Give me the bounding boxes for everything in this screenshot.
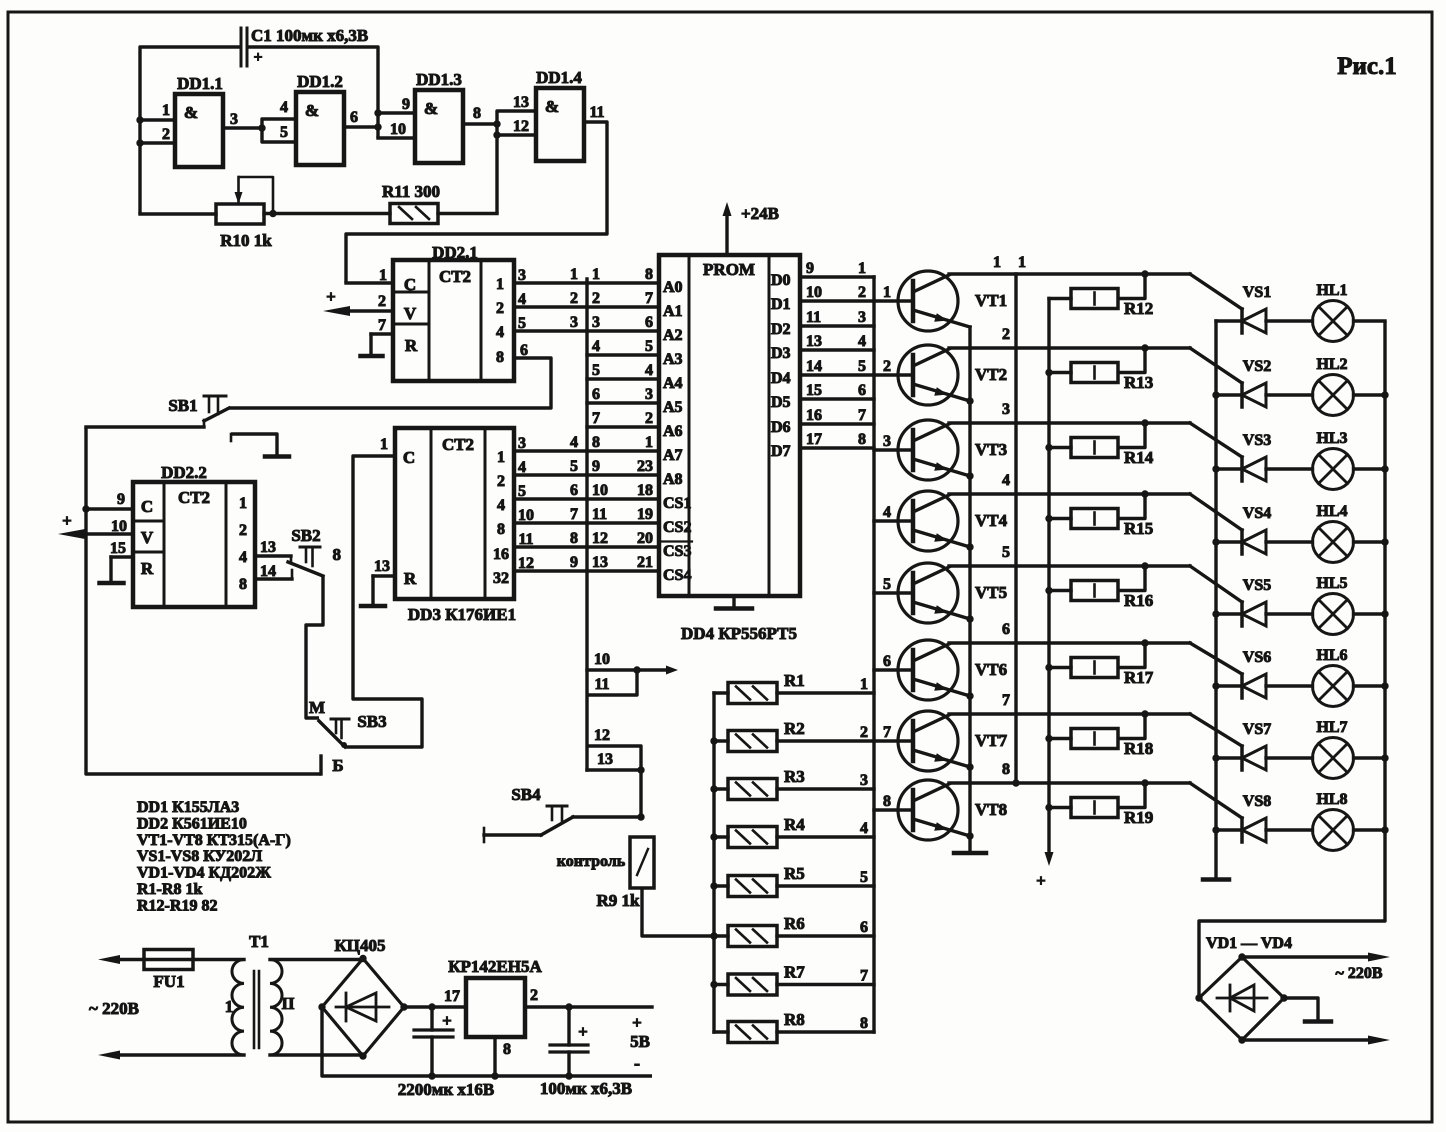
- svg-text:VT7: VT7: [975, 731, 1008, 750]
- svg-text:R8: R8: [784, 1010, 805, 1029]
- svg-text:&: &: [424, 99, 438, 118]
- resistor R12: [1049, 274, 1153, 318]
- svg-text:C: C: [404, 275, 416, 294]
- pin 1 C input of DD2.1: [346, 267, 393, 284]
- voltage regulator КР142ЕН5А: [444, 957, 542, 1076]
- wire bus to transistor bases: [874, 284, 913, 810]
- svg-text:11: 11: [589, 104, 604, 121]
- node junction R9 R6: [710, 932, 717, 939]
- pin 1 of DD1.1: [140, 102, 175, 120]
- svg-text:1: 1: [380, 436, 388, 453]
- wire R11 to DD1.4 input node: [438, 212, 497, 215]
- pin 7 R input of DD2.1: [371, 317, 393, 356]
- svg-text:12: 12: [513, 118, 529, 135]
- node junction rail 4 and R15: [1141, 490, 1148, 497]
- svg-text:DD4 КР556РТ5: DD4 КР556РТ5: [681, 624, 797, 643]
- svg-text:DD3 К176ИЕ1: DD3 К176ИЕ1: [408, 605, 516, 624]
- svg-text:R7: R7: [784, 963, 805, 982]
- push button SB1: [86, 396, 229, 427]
- svg-text:3: 3: [592, 314, 600, 331]
- svg-text:8: 8: [858, 431, 866, 448]
- svg-text:2: 2: [858, 284, 866, 301]
- svg-text:7: 7: [570, 506, 578, 523]
- capacitor 2200мк: [414, 1007, 453, 1076]
- svg-text:R5: R5: [784, 864, 805, 883]
- node junctions lamp rail: [1381, 391, 1388, 833]
- svg-text:2: 2: [497, 473, 505, 490]
- svg-text:A8: A8: [663, 471, 683, 488]
- svg-text:VS4: VS4: [1243, 505, 1271, 522]
- pin 2 of DD1.1: [140, 126, 175, 143]
- svg-text:32: 32: [493, 570, 509, 587]
- svg-text:VD1-VD4 КД202Ж: VD1-VD4 КД202Ж: [137, 865, 271, 882]
- svg-text:R1-R8 1k: R1-R8 1k: [137, 881, 202, 898]
- svg-text:DD2 К561ИЕ10: DD2 К561ИЕ10: [137, 815, 247, 832]
- svg-text:D4: D4: [771, 370, 791, 387]
- wire thyristor cathode rail: [1214, 321, 1217, 879]
- transistor VT8: [898, 780, 1007, 840]
- svg-text:~ 220В: ~ 220В: [89, 999, 139, 1018]
- svg-text:VT1-VT8 КТ315(А-Г): VT1-VT8 КТ315(А-Г): [137, 832, 291, 849]
- wire lamp supply rail: [1199, 321, 1385, 998]
- wire emitter rail to ground: [968, 327, 971, 852]
- wire VD bottom output with arrow: [1242, 1036, 1390, 1045]
- svg-text:18: 18: [637, 482, 653, 499]
- svg-text:&: &: [184, 103, 198, 122]
- svg-text:4: 4: [518, 291, 526, 308]
- terminal 5V labels: [630, 1013, 650, 1073]
- wire bridge minus to common rail: [322, 1007, 652, 1076]
- svg-text:6: 6: [592, 386, 600, 403]
- pin 9 C input of DD2.2: [86, 491, 133, 509]
- svg-text:R15: R15: [1124, 519, 1153, 538]
- thyristor VS4: [1216, 505, 1271, 554]
- svg-text:17: 17: [806, 431, 822, 448]
- resistor R15: [1049, 494, 1153, 538]
- wire SB4 to node: [573, 815, 641, 818]
- node junctions DD1.4 input: [493, 120, 500, 127]
- svg-text:CS4: CS4: [663, 567, 691, 584]
- node junction rail 6 and R17: [1141, 639, 1148, 646]
- svg-text:9: 9: [570, 554, 578, 571]
- svg-text:SB1: SB1: [168, 396, 197, 415]
- push button SB2: [288, 526, 323, 576]
- svg-text:1: 1: [993, 254, 1001, 271]
- thyristor VS6: [1216, 649, 1271, 698]
- transistor VT4: [898, 491, 1008, 551]
- svg-text:R14: R14: [1124, 448, 1154, 467]
- svg-text:HL5: HL5: [1316, 575, 1347, 592]
- svg-text:19: 19: [637, 506, 653, 523]
- svg-text:4: 4: [496, 324, 504, 341]
- svg-text:HL1: HL1: [1316, 282, 1347, 299]
- svg-text:D0: D0: [771, 272, 791, 289]
- svg-text:D2: D2: [771, 321, 791, 338]
- svg-text:5: 5: [518, 315, 526, 332]
- svg-text:T1: T1: [249, 932, 269, 951]
- resistor R16: [1049, 566, 1153, 610]
- svg-text:3: 3: [858, 309, 866, 326]
- pin 2 V input of DD2.1 with plus arrow: [323, 287, 393, 316]
- push button SB4: [484, 785, 573, 842]
- bus vertical line address side: [585, 279, 588, 770]
- bridge rectifier КЦ405: [318, 936, 407, 1060]
- wire bus row 12: [587, 727, 641, 817]
- transistor VT2: [898, 345, 1007, 405]
- svg-text:A6: A6: [663, 423, 683, 440]
- pin 11 output of DD1.4: [346, 104, 607, 283]
- svg-text:С1 100мк х6,3В: С1 100мк х6,3В: [251, 26, 368, 45]
- svg-text:13: 13: [806, 333, 822, 350]
- svg-text:7: 7: [378, 317, 386, 334]
- wire resistor supply rail: [1036, 299, 1053, 891]
- svg-text:5: 5: [860, 869, 868, 886]
- svg-text:1: 1: [497, 449, 505, 466]
- svg-text:7: 7: [883, 724, 891, 741]
- wire input loop pins 4 5 of DD1.2: [262, 99, 296, 142]
- resistor R7: [714, 963, 874, 996]
- wire left rail of oscillator: [140, 47, 241, 214]
- svg-text:5В: 5В: [630, 1032, 650, 1051]
- svg-text:4: 4: [239, 549, 247, 566]
- svg-text:DD2.1: DD2.1: [432, 243, 478, 262]
- svg-text:+: +: [632, 1013, 642, 1032]
- ground at PROM: [716, 606, 752, 611]
- svg-text:13: 13: [374, 558, 390, 575]
- wire collector rail 4: [949, 494, 1242, 530]
- bridge rectifier VD1-VD4: [1195, 935, 1292, 1044]
- wire input loop pins 13 12 of DD1.4: [497, 94, 536, 214]
- svg-text:8: 8: [570, 530, 578, 547]
- rail number labels: [993, 254, 1026, 778]
- svg-text:CT2: CT2: [178, 488, 210, 507]
- resistor R8: [714, 1010, 874, 1043]
- svg-text:9: 9: [402, 96, 410, 113]
- PROM data pin numbers: [806, 260, 866, 448]
- svg-text:4: 4: [518, 459, 526, 476]
- svg-text:23: 23: [637, 458, 653, 475]
- svg-text:12: 12: [518, 555, 534, 572]
- node junction R rail 7: [710, 981, 717, 988]
- pin 6 output of DD1.2: [344, 109, 378, 127]
- logic gate DD1.2: [296, 72, 344, 165]
- pin 13 of DD2.2: [255, 539, 291, 563]
- node junction C filter: [428, 1003, 435, 1010]
- wire collector rail 3: [949, 423, 1242, 457]
- PROM address pin numbers: [637, 266, 653, 571]
- svg-text:5: 5: [883, 576, 891, 593]
- pin 14 of DD2.2: [255, 563, 292, 580]
- wire mains top with arrow: [98, 955, 244, 964]
- svg-text:13: 13: [260, 539, 276, 556]
- svg-text:R18: R18: [1124, 739, 1153, 758]
- svg-text:VT1: VT1: [975, 291, 1007, 310]
- wire VD top output with arrow: [1242, 953, 1390, 962]
- svg-text:1: 1: [883, 284, 891, 301]
- svg-text:8: 8: [333, 545, 342, 564]
- wire collector rail 7: [949, 714, 1242, 746]
- svg-text:5: 5: [645, 338, 653, 355]
- svg-text:A7: A7: [663, 447, 683, 464]
- node junction 100мк ground: [565, 1072, 572, 1079]
- svg-text:3: 3: [645, 386, 653, 403]
- thyristor VS2: [1216, 358, 1271, 407]
- resistor R3: [714, 767, 874, 800]
- svg-text:8: 8: [497, 521, 505, 538]
- svg-text:5: 5: [1002, 544, 1010, 561]
- resistor R5: [714, 864, 874, 897]
- svg-text:C: C: [141, 497, 153, 516]
- node junction rail 5 and R16: [1141, 562, 1148, 569]
- svg-text:DD1.2: DD1.2: [297, 72, 343, 91]
- svg-text:1: 1: [592, 266, 600, 283]
- svg-text:A1: A1: [663, 303, 683, 320]
- svg-text:PROM: PROM: [703, 260, 755, 279]
- wire link rail1 to rail8: [1014, 274, 1017, 783]
- svg-text:2: 2: [239, 522, 247, 539]
- pin 8 output of DD1.3: [463, 105, 497, 124]
- thyristor VS3: [1216, 432, 1271, 481]
- svg-text:7: 7: [645, 290, 653, 307]
- svg-text:&: &: [545, 97, 559, 116]
- svg-text:R: R: [405, 336, 418, 355]
- svg-text:2: 2: [860, 724, 868, 741]
- svg-text:17: 17: [444, 988, 460, 1005]
- svg-text:4: 4: [592, 338, 600, 355]
- svg-text:7: 7: [860, 968, 868, 985]
- svg-text:SB4: SB4: [511, 785, 541, 804]
- svg-text:5: 5: [518, 483, 526, 500]
- svg-text:4: 4: [883, 504, 891, 521]
- pin 9 of DD1.3: [378, 96, 415, 113]
- svg-text:10: 10: [806, 284, 822, 301]
- transistor VT1: [898, 271, 1007, 331]
- svg-text:6: 6: [883, 653, 891, 670]
- svg-text:2: 2: [1002, 326, 1010, 343]
- svg-text:2: 2: [592, 290, 600, 307]
- svg-text:8: 8: [645, 266, 653, 283]
- svg-text:2: 2: [378, 293, 386, 310]
- wire SB1 lower contact to ground: [231, 434, 277, 456]
- svg-text:DD1.4: DD1.4: [536, 68, 582, 87]
- svg-text:R6: R6: [784, 914, 805, 933]
- svg-text:R19: R19: [1124, 808, 1153, 827]
- node junction rail 1 and R12: [1141, 270, 1148, 277]
- svg-text:R10 1k: R10 1k: [220, 231, 272, 250]
- svg-text:6: 6: [350, 109, 358, 126]
- svg-text:16: 16: [806, 407, 822, 424]
- svg-text:4: 4: [570, 434, 578, 451]
- wire regulator output: [525, 1005, 652, 1008]
- svg-text:5: 5: [592, 362, 600, 379]
- resistor R19: [1049, 783, 1153, 827]
- svg-text:5: 5: [280, 124, 288, 141]
- svg-text:16: 16: [493, 546, 509, 563]
- svg-text:R16: R16: [1124, 591, 1153, 610]
- pin numbers DD2.1 outputs: [518, 267, 528, 359]
- svg-text:3: 3: [570, 314, 578, 331]
- transistor VT5: [898, 563, 1007, 623]
- wire resistor group rail: [712, 693, 715, 1032]
- svg-text:DD1.3: DD1.3: [416, 70, 462, 89]
- svg-text:1: 1: [239, 495, 247, 512]
- node junction rail 2 and R13: [1141, 344, 1148, 351]
- svg-text:VS6: VS6: [1243, 649, 1271, 666]
- wire collector rail 5: [949, 566, 1242, 602]
- svg-text:15: 15: [110, 540, 126, 557]
- svg-text:~ 220В: ~ 220В: [1336, 965, 1383, 982]
- node junction R rail 3: [710, 785, 717, 792]
- svg-text:1: 1: [645, 434, 653, 451]
- svg-text:A2: A2: [663, 327, 683, 344]
- svg-text:CS1: CS1: [663, 495, 691, 512]
- svg-text:4: 4: [280, 99, 288, 116]
- svg-text:HL8: HL8: [1316, 791, 1347, 808]
- svg-text:8: 8: [496, 349, 504, 366]
- terminal Б tick: [321, 756, 344, 775]
- wire SB3 to DD3 C input: [345, 456, 422, 747]
- svg-text:V: V: [141, 528, 154, 547]
- wire VD right to ground: [1284, 998, 1318, 1021]
- resistor R10 potentiometer: [140, 177, 273, 224]
- pin 13 R input of DD3: [373, 558, 395, 606]
- svg-text:6: 6: [570, 482, 578, 499]
- node junction R rail 4: [710, 833, 717, 840]
- svg-text:4: 4: [497, 497, 505, 514]
- svg-text:2: 2: [496, 300, 504, 317]
- node junction supply rail R14: [1045, 444, 1052, 451]
- svg-text:R2: R2: [784, 719, 805, 738]
- svg-text:7: 7: [858, 407, 866, 424]
- resistor R18: [1049, 714, 1153, 758]
- logic gate DD1.3: [415, 70, 463, 163]
- lamp HL5: [1266, 575, 1385, 635]
- svg-text:+: +: [442, 1011, 452, 1030]
- node junction R rail 5: [710, 882, 717, 889]
- svg-text:D6: D6: [771, 419, 791, 436]
- wire collector rail 1: [949, 274, 1242, 309]
- lamp HL2: [1266, 356, 1385, 416]
- svg-text:9: 9: [806, 260, 814, 277]
- resistor R13: [1049, 348, 1153, 392]
- svg-text:+: +: [62, 511, 72, 530]
- component list text: [137, 799, 291, 914]
- wire secondary to bridge: [270, 960, 363, 1056]
- svg-text:3: 3: [230, 111, 238, 128]
- svg-text:6: 6: [860, 919, 868, 936]
- capacitor C1: [241, 28, 263, 66]
- svg-text:R12: R12: [1124, 299, 1153, 318]
- bus cell numbers left side: [570, 266, 578, 571]
- svg-text:8: 8: [860, 1015, 868, 1032]
- wire DD2.1 pin6 to SB1 line: [229, 358, 551, 408]
- svg-text:5: 5: [858, 358, 866, 375]
- svg-text:HL3: HL3: [1316, 430, 1347, 447]
- svg-text:II: II: [281, 994, 295, 1013]
- svg-text:6: 6: [645, 314, 653, 331]
- PROM address labels: [662, 279, 692, 584]
- node junction 100мк: [565, 1003, 572, 1010]
- svg-text:10: 10: [594, 651, 610, 668]
- node junction supply rail R16: [1045, 587, 1052, 594]
- svg-text:10: 10: [111, 518, 127, 535]
- svg-text:15: 15: [806, 382, 822, 399]
- svg-text:4: 4: [860, 820, 868, 837]
- svg-text:FU1: FU1: [153, 972, 184, 991]
- node junction at DD1.1 pin1: [136, 116, 143, 123]
- node junction at DD1.2 input: [258, 124, 265, 131]
- bus vertical line data side: [872, 277, 875, 1032]
- svg-text:10: 10: [390, 121, 406, 138]
- svg-text:R3: R3: [784, 767, 805, 786]
- svg-text:+: +: [326, 287, 336, 306]
- svg-text:8: 8: [239, 576, 247, 593]
- svg-text:1: 1: [570, 266, 578, 283]
- svg-text:11: 11: [594, 676, 609, 693]
- node junction SB4: [637, 813, 644, 820]
- svg-text:VS3: VS3: [1243, 432, 1271, 449]
- lamp HL3: [1266, 430, 1385, 490]
- node junction left rail DD2.2 pin9: [82, 505, 89, 512]
- wire rows 4-7 bus to PROM: [587, 355, 659, 427]
- svg-text:2: 2: [162, 126, 170, 143]
- node junction row13: [637, 766, 644, 773]
- svg-text:9: 9: [592, 458, 600, 475]
- svg-text:R1: R1: [784, 671, 805, 690]
- svg-text:HL4: HL4: [1316, 503, 1347, 520]
- svg-text:2200мк х16В: 2200мк х16В: [398, 1080, 494, 1099]
- svg-text:7: 7: [592, 410, 600, 427]
- transistor VT3: [898, 420, 1007, 480]
- svg-text:1: 1: [860, 676, 868, 693]
- resistor R9: [630, 837, 654, 888]
- svg-text:DD1 К155ЛА3: DD1 К155ЛА3: [137, 799, 239, 816]
- node junction supply rail R18: [1045, 735, 1052, 742]
- svg-text:8: 8: [503, 1041, 511, 1058]
- svg-text:контроль: контроль: [557, 853, 626, 870]
- wire SB2 to SB3 contact M: [306, 576, 323, 718]
- svg-text:1: 1: [162, 102, 170, 119]
- svg-text:2: 2: [530, 987, 538, 1004]
- svg-text:+: +: [578, 1022, 588, 1041]
- svg-text:9: 9: [117, 491, 125, 508]
- svg-text:4: 4: [858, 333, 866, 350]
- svg-text:CT2: CT2: [439, 267, 471, 286]
- svg-text:14: 14: [260, 563, 276, 580]
- wire left rail to DD2.2: [86, 427, 321, 774]
- node junction R rail 6: [710, 932, 717, 939]
- svg-text:10: 10: [518, 507, 534, 524]
- pin 15 R input of DD2.2: [110, 540, 133, 583]
- svg-text:R13: R13: [1124, 373, 1153, 392]
- svg-text:CT2: CT2: [442, 435, 474, 454]
- resistor R1: [714, 671, 874, 704]
- wire DD3 outputs rows 8-13 to PROM: [514, 451, 659, 571]
- svg-text:DD2.2: DD2.2: [161, 463, 207, 482]
- ground at DD3 R: [361, 604, 385, 609]
- svg-text:8: 8: [473, 105, 481, 122]
- wire collector rail 6: [949, 643, 1242, 674]
- fuse FU1: [144, 950, 193, 992]
- thyristor VS8: [1216, 793, 1271, 842]
- node junction rail 3 and R14: [1141, 419, 1148, 426]
- thyristor VS1: [1216, 284, 1271, 333]
- svg-text:3: 3: [518, 435, 526, 452]
- svg-text:VD1 — VD4: VD1 — VD4: [1206, 935, 1292, 952]
- node junction at DD1.1 pin2: [136, 139, 143, 146]
- svg-text:11: 11: [592, 506, 607, 523]
- svg-text:2: 2: [570, 290, 578, 307]
